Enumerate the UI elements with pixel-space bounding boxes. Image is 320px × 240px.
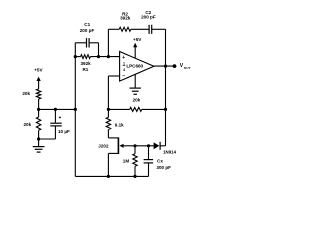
wire 20k lower to gnd node <box>38 130 40 139</box>
label VOUT <box>180 63 191 70</box>
wire bottom rail <box>75 175 148 177</box>
node 1M rail <box>133 175 136 178</box>
svg-text:+5V: +5V <box>34 68 43 73</box>
node bias right <box>74 108 77 111</box>
wire C1 left <box>75 42 86 44</box>
resistor 1M <box>133 154 137 167</box>
wire cap bottom <box>39 138 56 140</box>
wire 20k row left <box>108 108 129 110</box>
wire inv to 9.1k <box>107 109 109 117</box>
wire feedback drop <box>107 29 109 56</box>
svg-text:1: 1 <box>123 61 125 65</box>
resistor 20k upper <box>36 89 40 99</box>
label C2 <box>141 10 156 20</box>
wire feedback left <box>108 28 119 30</box>
svg-text:392k: 392k <box>80 61 91 66</box>
transistor Q1 J202 <box>108 137 135 176</box>
svg-text:LPC660: LPC660 <box>126 63 143 68</box>
svg-text:20k: 20k <box>23 122 31 127</box>
wire left vertical <box>74 43 76 177</box>
resistor 20k lower <box>36 117 40 130</box>
label R2 <box>120 11 131 20</box>
svg-text:OUT: OUT <box>184 66 191 70</box>
svg-text:9.1k: 9.1k <box>115 122 124 127</box>
capacitor C2 200 pF <box>149 25 152 34</box>
resistor 20k feedback <box>130 107 142 111</box>
capacitor 10uF <box>50 109 61 139</box>
wire 20k row right <box>142 108 166 110</box>
svg-text:Cx: Cx <box>157 158 163 163</box>
resistor R2 392k <box>119 27 131 31</box>
wire 9.1k to drain <box>107 130 109 138</box>
node source rail <box>107 175 110 178</box>
node bias cap <box>54 108 57 111</box>
svg-text:200 pF: 200 pF <box>141 15 156 20</box>
svg-text:+5V: +5V <box>133 37 142 42</box>
label Cx <box>156 158 171 170</box>
resistor R1 392k <box>81 55 91 59</box>
node ground join <box>37 137 40 140</box>
svg-text:300 pF: 300 pF <box>156 165 171 170</box>
svg-text:+: + <box>122 55 125 61</box>
terminal VOUT <box>173 64 177 68</box>
node feedback <box>107 55 110 58</box>
wire 20k upper to node <box>38 99 40 109</box>
wire C1 right <box>89 43 98 57</box>
node gate Cx <box>147 144 150 147</box>
svg-text:C1: C1 <box>84 22 90 27</box>
svg-text:1N914: 1N914 <box>163 149 176 154</box>
capacitor Cx 300 pF <box>144 146 154 177</box>
wire gate to Cx <box>135 145 149 147</box>
wire inverting input <box>108 76 119 109</box>
label R1 <box>80 61 91 72</box>
op-amp +5V supply arrow <box>133 43 137 59</box>
svg-text:−: − <box>122 73 125 79</box>
capacitor C1 200 pF <box>87 38 90 47</box>
svg-text:20k: 20k <box>133 98 141 103</box>
node R1 left <box>74 55 77 58</box>
node inverting junction <box>107 108 110 111</box>
wire gate to diode <box>149 145 154 147</box>
wire 1M to rail <box>134 166 136 176</box>
svg-text:4: 4 <box>123 68 125 72</box>
wire R1 left stub <box>75 56 80 58</box>
wire bias row <box>39 108 76 110</box>
svg-text:10 µF: 10 µF <box>58 129 70 134</box>
wire C2 to output column <box>152 28 166 30</box>
svg-text:R1: R1 <box>82 67 88 72</box>
wire R2 to C2 <box>131 28 149 30</box>
diode D1 1N914 <box>154 142 166 150</box>
resistor 9.1k <box>106 117 110 129</box>
svg-text:J202: J202 <box>98 143 109 148</box>
op-amp U1 LPC660 <box>120 52 154 82</box>
op-amp ground <box>130 74 141 94</box>
label C1 <box>80 22 95 33</box>
svg-text:20k: 20k <box>22 91 30 96</box>
svg-text:392k: 392k <box>120 16 131 21</box>
wire output column <box>165 29 167 146</box>
wire node to 20k lower <box>38 109 40 117</box>
node output feedback <box>164 65 167 68</box>
node 20k output <box>164 108 167 111</box>
ground left <box>33 139 45 152</box>
node C1 right <box>97 55 100 58</box>
wire R1 to +input <box>90 56 119 58</box>
node gate 1M <box>133 144 136 147</box>
wire gate to 1M <box>134 146 136 154</box>
supply arrow left <box>36 77 40 89</box>
svg-text:200 pF: 200 pF <box>80 28 95 33</box>
node bias left <box>37 108 40 111</box>
wire output <box>154 65 175 67</box>
svg-text:1M: 1M <box>123 159 130 164</box>
